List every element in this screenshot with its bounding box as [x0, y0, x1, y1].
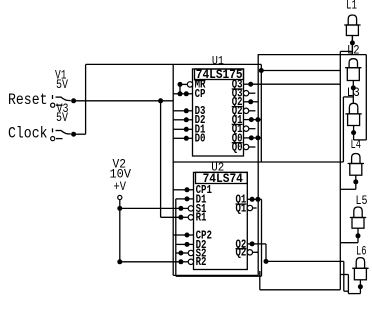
svg-text:L1: L1: [346, 0, 357, 13]
U1 pin Q3 stub: [244, 82, 254, 87]
wire zigzag to L6: [340, 275, 360, 294]
wire CP1 row: [173, 189, 187, 191]
wire MR-CP link: [178, 84, 183, 96]
wire L1 lead: [351, 36, 353, 55]
wire CP2 row: [173, 234, 187, 236]
U1 pin D1 stub: [184, 127, 193, 132]
U1 pin Q2bar bubble and stub: [243, 108, 255, 113]
U2 pin D1 stub: [185, 196, 194, 201]
wire D1 feedback riser: [176, 199, 187, 276]
wire rail P top stub: [340, 50, 352, 52]
wire clock drop to node: [259, 64, 264, 73]
wire rail P: [339, 52, 341, 290]
IC U2 74LS74 body: [194, 161, 248, 269]
U2 pin Q2 stub: [247, 241, 254, 246]
wire under-U2 A: [173, 252, 258, 275]
svg-text:CP: CP: [195, 88, 206, 101]
wire node70 to rail: [261, 70, 340, 72]
wire reset: [74, 98, 174, 103]
svg-text:U2: U2: [211, 161, 224, 174]
U2 pin S1 bubble and stub: [178, 206, 193, 211]
U2 pin Q2 label: [236, 238, 247, 251]
switch J2 Clock: [51, 128, 76, 140]
U2 pin Q1 stub: [247, 197, 254, 202]
U1 pin MR label: [195, 79, 206, 92]
U1 pin Q2 stub: [244, 99, 254, 104]
U1 pin Q2 label: [232, 96, 243, 109]
svg-text:Q1: Q1: [236, 202, 247, 215]
U2 pin Q1bar bubble and stub: [247, 205, 256, 210]
wire Q3 to rail: [251, 83, 341, 85]
svg-text:L3: L3: [347, 86, 360, 100]
wire U2 Q2 to node: [252, 244, 268, 264]
wire node to L6 tail: [266, 261, 348, 291]
wire S2 row: [176, 252, 181, 254]
wire +V to R2: [117, 259, 181, 264]
wire D0 row: [173, 137, 186, 139]
switch J1 Reset: [51, 95, 76, 107]
wire D2 row U2: [176, 243, 187, 245]
svg-text:Q2: Q2: [236, 247, 247, 260]
U1 pin Q3 label: [232, 79, 243, 92]
wire bottom return: [260, 271, 341, 290]
U2 pin CP1 stub: [185, 187, 194, 192]
U2 pin R2 bubble and stub: [178, 259, 193, 264]
wire Vb Q1Q0 net: [251, 71, 261, 163]
wire L4 bottom: [340, 188, 356, 190]
U2 pin D2 stub: [185, 242, 194, 247]
U1 pin D0 stub: [184, 136, 193, 141]
wire +V down: [119, 208, 121, 261]
U1 pin Q1bar bubble and stub: [243, 126, 255, 131]
wire clock top rail: [86, 63, 262, 65]
svg-text:+V: +V: [114, 180, 127, 194]
wire L5 bottom: [340, 242, 358, 244]
svg-text:Reset: Reset: [8, 91, 48, 109]
U1 pin Q0bar bubble and stub: [243, 144, 255, 149]
svg-text:L6: L6: [356, 245, 367, 259]
U1 pin CP stub: [184, 91, 193, 96]
U2 pin S2 bubble and stub: [178, 250, 193, 255]
svg-text:5V: 5V: [56, 111, 68, 125]
lamp L3: [345, 86, 361, 140]
wire Va Q2 net: [251, 55, 259, 253]
svg-text:Clock: Clock: [8, 124, 48, 142]
U1 pin Q0 label: [232, 132, 243, 145]
svg-text:U1: U1: [212, 55, 224, 68]
U1 pin D3 stub: [184, 108, 193, 113]
wire rail A right drop: [354, 55, 367, 140]
wire +V to S1: [117, 206, 181, 211]
U2 pin CP2 stub: [185, 233, 194, 238]
IC U1 74LS175 body: [193, 55, 244, 156]
wire main left bus: [172, 64, 174, 275]
U1 pin Q0 stub: [244, 135, 254, 140]
wire U2 Q1 row: [252, 197, 261, 202]
svg-text:R1: R1: [196, 212, 207, 225]
wire D3 row: [173, 110, 186, 112]
wire D2 row: [173, 119, 186, 121]
U1 pin Q1 label: [232, 114, 243, 127]
lamp L4: [348, 138, 364, 189]
wire under-U2 B: [176, 199, 262, 276]
svg-text:5V: 5V: [56, 78, 68, 92]
wire clock stub: [74, 133, 86, 135]
svg-text:R2: R2: [196, 256, 207, 269]
lamp L1: [344, 0, 360, 55]
svg-text:Q0: Q0: [232, 141, 243, 154]
svg-text:D0: D0: [195, 133, 206, 146]
U1 pin D2 stub: [184, 117, 193, 122]
U2 pin Q2bar bubble and stub: [247, 250, 258, 255]
U2 pin R1 bubble and stub: [178, 215, 193, 220]
source V2 +V terminal: [118, 195, 122, 208]
svg-text:L5: L5: [356, 194, 368, 208]
wire reset down to R1: [161, 101, 181, 218]
wire Q2bar U2 link: [257, 251, 259, 253]
wire CP row: [173, 93, 186, 95]
wire top rail A: [258, 54, 367, 56]
U1 pin MR bubble and stub: [178, 82, 193, 87]
lamp L2: [345, 44, 361, 104]
wire clock riser: [85, 64, 87, 134]
U2 pin Q1 label: [236, 194, 247, 207]
U1 pin Q3bar bubble and stub: [243, 91, 255, 96]
wire D1 row: [173, 128, 186, 130]
lamp L5: [350, 194, 368, 243]
U1 pin Q1 stub: [244, 117, 254, 122]
wire mid rail: [173, 97, 353, 162]
svg-text:L2: L2: [347, 44, 360, 58]
lamp L6: [352, 245, 368, 294]
